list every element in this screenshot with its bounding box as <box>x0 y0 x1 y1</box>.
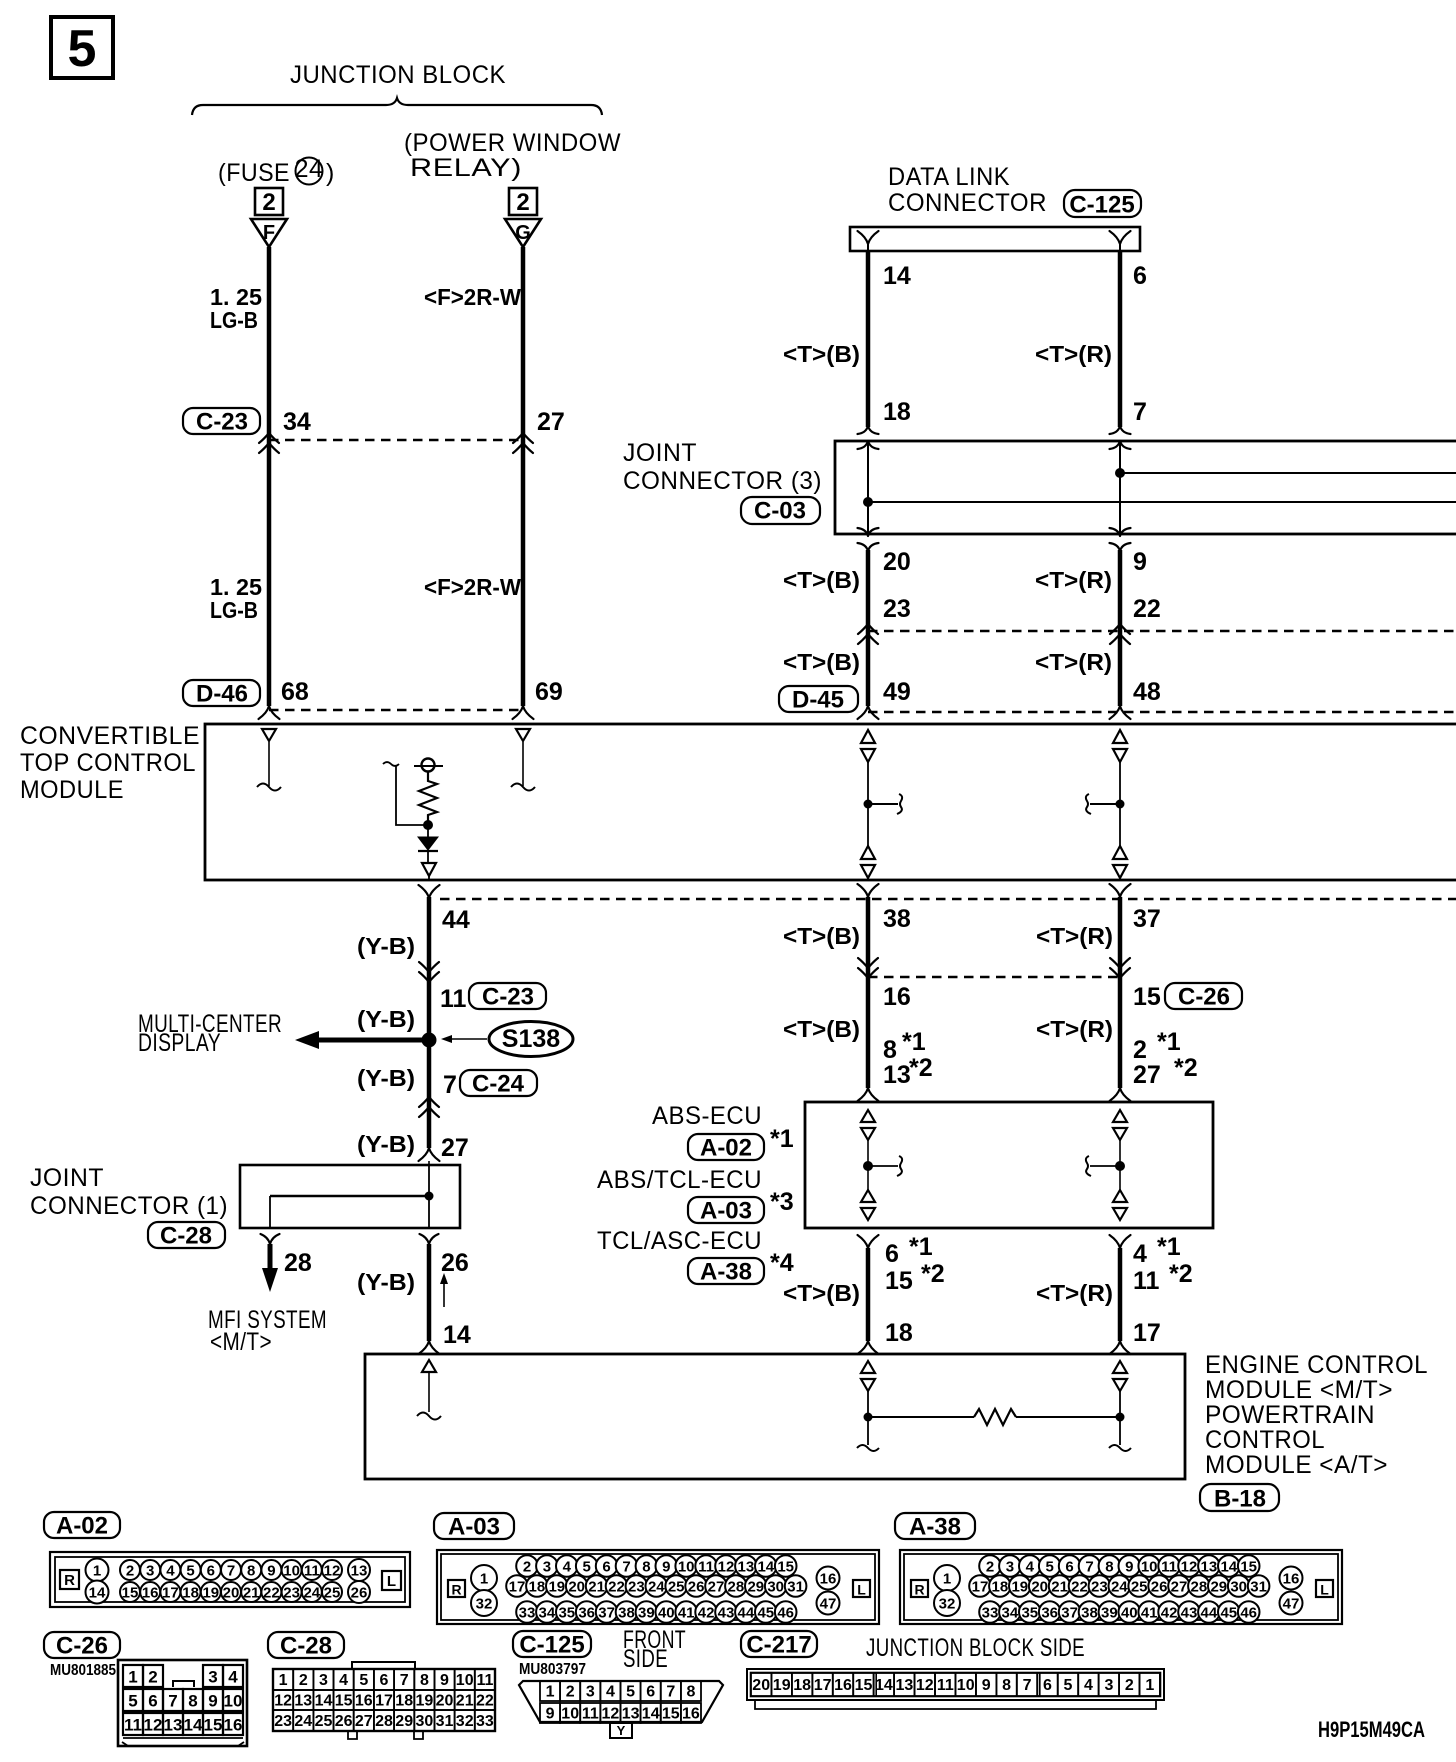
svg-text:C-26: C-26 <box>56 1633 108 1660</box>
wire B below module <box>866 897 871 1088</box>
pin 17 <box>1133 1319 1161 1347</box>
svg-text:MODULE: MODULE <box>20 776 124 804</box>
svg-text:JUNCTION BLOCK: JUNCTION BLOCK <box>290 61 506 89</box>
dashed connector line D-45 <box>868 711 1456 714</box>
svg-text:49: 49 <box>883 678 911 706</box>
pin 4 *1 (engine) <box>1133 1233 1181 1268</box>
wire G label <F>2R-W upper <box>424 284 521 310</box>
fork below module wire B <box>858 884 879 897</box>
svg-text:40: 40 <box>658 1605 675 1622</box>
svg-text:TCL/ASC-ECU: TCL/ASC-ECU <box>597 1227 762 1255</box>
module internal triangles bottom (R) <box>1113 846 1127 881</box>
connector C-125 pinout label <box>513 1631 591 1659</box>
svg-text:18: 18 <box>883 398 911 426</box>
wire label <T>(R) 2 <box>1035 649 1112 675</box>
svg-text:5: 5 <box>583 1559 591 1576</box>
label TCL/ASC-ECU <box>597 1227 762 1255</box>
svg-text:6: 6 <box>1065 1559 1073 1576</box>
svg-text:27: 27 <box>1133 1061 1161 1089</box>
svg-text:16: 16 <box>682 1706 700 1723</box>
svg-text:(Y-B): (Y-B) <box>357 1006 415 1032</box>
svg-text:26: 26 <box>1151 1579 1168 1596</box>
svg-text:11: 11 <box>440 985 467 1013</box>
svg-text:14: 14 <box>184 1716 203 1735</box>
svg-text:28: 28 <box>728 1579 745 1596</box>
pin 27 *2 <box>1133 1054 1198 1089</box>
connector C-26 part number MU801885 <box>50 1662 116 1679</box>
svg-text:S138: S138 <box>502 1025 560 1053</box>
module internal resistor <box>419 771 437 825</box>
svg-text:<T>(R): <T>(R) <box>1035 567 1112 593</box>
svg-text:7: 7 <box>168 1692 177 1711</box>
svg-text:45: 45 <box>1220 1605 1237 1622</box>
svg-text:21: 21 <box>456 1693 474 1710</box>
fork at joint connector exit R <box>1110 528 1131 551</box>
svg-text:29: 29 <box>747 1579 764 1596</box>
svg-text:41: 41 <box>1141 1605 1158 1622</box>
svg-text:7: 7 <box>227 1563 235 1580</box>
svg-text:11: 11 <box>304 1563 320 1580</box>
svg-text:15: 15 <box>204 1716 223 1735</box>
svg-text:36: 36 <box>578 1605 595 1622</box>
wire label (Y-B) 1 <box>357 933 415 959</box>
svg-text:C-24: C-24 <box>472 1071 525 1098</box>
svg-text:28: 28 <box>284 1249 312 1277</box>
svg-text:33: 33 <box>476 1713 494 1730</box>
svg-text:47: 47 <box>1283 1596 1300 1613</box>
svg-text:1: 1 <box>943 1571 951 1588</box>
svg-text:2: 2 <box>126 1563 134 1580</box>
svg-text:5: 5 <box>68 20 97 78</box>
label JOINT CONNECTOR (3) <box>623 439 822 495</box>
module internal pull-up circle <box>414 759 443 772</box>
svg-text:38: 38 <box>883 905 911 933</box>
connector C-23 label (center) <box>469 983 546 1011</box>
data link pin fork B <box>858 231 879 251</box>
svg-text:22: 22 <box>1133 595 1161 623</box>
joint connector bus line 1 <box>1115 468 1456 478</box>
svg-text:CONVERTIBLE: CONVERTIBLE <box>20 722 200 750</box>
pin 13 *2 <box>883 1054 933 1089</box>
svg-text:44: 44 <box>738 1605 755 1622</box>
connector C-28 pinout box <box>273 1662 495 1739</box>
wire F (fuse 24 to module, LG-B) <box>267 247 272 706</box>
svg-text:12: 12 <box>916 1677 934 1694</box>
connector C-125 label <box>1064 190 1141 219</box>
dashed connector line C-23 <box>269 439 523 442</box>
svg-text:12: 12 <box>602 1706 620 1723</box>
svg-text:69: 69 <box>535 678 563 706</box>
svg-text:C-125: C-125 <box>519 1632 584 1659</box>
svg-text:3: 3 <box>146 1563 154 1580</box>
pin 6 <box>1133 262 1147 290</box>
chevron inline R <box>1110 624 1130 644</box>
svg-text:(FUSE: (FUSE <box>218 159 290 187</box>
svg-text:22: 22 <box>263 1585 280 1602</box>
connector A-03 label + *3 <box>688 1188 794 1225</box>
svg-text:22: 22 <box>476 1693 494 1710</box>
svg-text:POWERTRAIN: POWERTRAIN <box>1205 1401 1375 1429</box>
module internal triangles bottom (B) <box>861 846 875 881</box>
svg-text:46: 46 <box>777 1605 794 1622</box>
module internal triangles top (B) <box>861 730 875 762</box>
svg-text:2: 2 <box>262 189 275 216</box>
svg-text:39: 39 <box>1101 1605 1118 1622</box>
wire R ABS to engine module <box>1118 1248 1123 1341</box>
data link connector box <box>850 227 1140 251</box>
connector C-24 label <box>460 1070 537 1098</box>
wire label <T>(B) 5 <box>783 1280 860 1306</box>
svg-text:5: 5 <box>1046 1559 1054 1576</box>
fork at engine module wire B <box>858 1341 879 1354</box>
svg-text:25: 25 <box>1131 1579 1148 1596</box>
wire label <T>(R) <box>1035 567 1112 593</box>
svg-text:17: 17 <box>375 1693 393 1710</box>
wire B ABS to engine module <box>866 1248 871 1341</box>
joint connector (1) box <box>240 1165 460 1228</box>
label (FUSE 24) <box>218 155 335 187</box>
svg-text:<T>(R): <T>(R) <box>1036 923 1113 949</box>
connector C-23 label (wire F) <box>183 408 260 436</box>
wire G end fork <box>513 706 534 719</box>
svg-text:8: 8 <box>883 1036 897 1064</box>
svg-text:33: 33 <box>519 1605 536 1622</box>
arrow to MFI system <box>262 1244 278 1292</box>
svg-text:23: 23 <box>274 1713 292 1730</box>
svg-text:A-03: A-03 <box>700 1198 752 1225</box>
wire B upper (diagnosis K-line) <box>866 251 871 427</box>
svg-text:10: 10 <box>1141 1559 1158 1576</box>
ABS internal branch with hook (R) <box>1086 1156 1125 1176</box>
svg-text:9: 9 <box>1125 1559 1133 1576</box>
svg-text:19: 19 <box>1011 1579 1028 1596</box>
svg-text:13: 13 <box>351 1563 368 1580</box>
pin 37 <box>1133 905 1161 933</box>
chevron inline (Y-B up) <box>419 1097 439 1117</box>
fork above joint connector (1) <box>419 1148 440 1165</box>
svg-text:17: 17 <box>509 1579 526 1596</box>
pin 6 *1 (engine) <box>885 1233 933 1268</box>
svg-text:27: 27 <box>441 1134 469 1162</box>
svg-text:1: 1 <box>93 1563 101 1580</box>
svg-text:2: 2 <box>566 1684 575 1701</box>
svg-text:8: 8 <box>420 1672 429 1689</box>
data link pin fork R <box>1110 231 1131 251</box>
svg-text:7: 7 <box>1023 1677 1032 1694</box>
svg-text:24: 24 <box>1111 1579 1128 1596</box>
svg-text:*2: *2 <box>1169 1260 1193 1288</box>
svg-text:1: 1 <box>1145 1677 1154 1694</box>
svg-text:H9P15M49CA: H9P15M49CA <box>1318 1717 1425 1742</box>
svg-text:32: 32 <box>939 1596 956 1613</box>
svg-text:15: 15 <box>335 1693 353 1710</box>
pin 14 (engine module) <box>443 1321 471 1349</box>
label MFI SYSTEM M/T <box>208 1306 327 1356</box>
terminal triangle G <box>505 219 541 247</box>
svg-text:8: 8 <box>247 1563 255 1580</box>
svg-text:<T>(B): <T>(B) <box>783 649 860 675</box>
svg-text:13: 13 <box>164 1716 183 1735</box>
svg-text:14: 14 <box>883 262 911 290</box>
convertible top control module box <box>205 724 1456 880</box>
svg-text:9: 9 <box>1133 548 1147 576</box>
svg-text:19: 19 <box>416 1693 434 1710</box>
svg-text:MODULE <A/T>: MODULE <A/T> <box>1205 1451 1388 1479</box>
svg-text:15: 15 <box>855 1677 873 1694</box>
fork below joint connector (26) <box>420 1234 439 1244</box>
svg-text:44: 44 <box>442 906 470 934</box>
svg-text:R: R <box>451 1582 461 1598</box>
svg-text:*2: *2 <box>1174 1054 1198 1082</box>
direction arrow (up) <box>440 1273 448 1307</box>
pin 7 (C-24) <box>443 1071 457 1099</box>
svg-text:L: L <box>857 1582 866 1598</box>
module internal triangles top (R) <box>1113 730 1127 762</box>
svg-text:<T>(R): <T>(R) <box>1036 1016 1113 1042</box>
svg-text:21: 21 <box>1051 1579 1068 1596</box>
svg-text:ENGINE CONTROL: ENGINE CONTROL <box>1205 1351 1428 1379</box>
svg-text:): ) <box>326 159 335 187</box>
svg-text:5: 5 <box>626 1684 635 1701</box>
pin 2 *1 <box>1133 1028 1181 1064</box>
fork above ABS box wire B <box>858 1088 879 1101</box>
svg-text:17: 17 <box>814 1677 832 1694</box>
module internal wire (R) <box>1119 762 1121 846</box>
svg-text:F: F <box>263 222 275 244</box>
svg-text:8: 8 <box>1002 1677 1011 1694</box>
pin 68 <box>281 678 309 706</box>
joint connector (3) box <box>835 441 1456 534</box>
page number 5 box <box>51 17 113 78</box>
svg-text:15: 15 <box>1240 1559 1257 1576</box>
svg-text:6: 6 <box>1133 262 1147 290</box>
svg-text:8: 8 <box>188 1692 197 1711</box>
svg-text:22: 22 <box>1071 1579 1088 1596</box>
fork below joint connector (28) <box>261 1234 280 1244</box>
svg-text:2: 2 <box>299 1672 308 1689</box>
svg-text:<F>2R-W: <F>2R-W <box>424 574 521 600</box>
svg-text:2: 2 <box>1125 1677 1134 1694</box>
svg-text:15: 15 <box>1133 983 1161 1011</box>
svg-text:*2: *2 <box>921 1260 945 1288</box>
svg-text:7: 7 <box>622 1559 630 1576</box>
pin 18 <box>885 1319 913 1347</box>
svg-text:MODULE <M/T>: MODULE <M/T> <box>1205 1376 1393 1404</box>
svg-text:6: 6 <box>646 1684 655 1701</box>
svg-text:19: 19 <box>548 1579 565 1596</box>
module internal wire G to squiggle <box>511 742 535 791</box>
module internal branch with hook (R) <box>1086 794 1125 814</box>
svg-text:<T>(B): <T>(B) <box>783 1016 860 1042</box>
pin 8 *1 <box>883 1028 926 1064</box>
label (POWER WINDOW RELAY) <box>404 129 621 182</box>
connector C-26 label (wire R) <box>1165 983 1242 1011</box>
svg-text:7: 7 <box>666 1684 675 1701</box>
wire label <T>(R) upper <box>1035 341 1112 367</box>
svg-text:<T>(B): <T>(B) <box>783 341 860 367</box>
svg-text:11: 11 <box>1161 1559 1177 1576</box>
svg-text:JUNCTION BLOCK SIDE: JUNCTION BLOCK SIDE <box>866 1634 1085 1662</box>
svg-text:*2: *2 <box>909 1054 933 1082</box>
joint connector internal wire R <box>1119 441 1121 534</box>
svg-text:31: 31 <box>787 1579 804 1596</box>
svg-text:4: 4 <box>563 1559 572 1576</box>
svg-text:4: 4 <box>228 1668 238 1687</box>
svg-text:C-125: C-125 <box>1069 192 1134 219</box>
module internal branch bracket <box>383 762 424 825</box>
svg-text:7: 7 <box>1133 398 1147 426</box>
svg-text:27: 27 <box>537 408 565 436</box>
wire F end fork <box>259 706 280 719</box>
svg-text:42: 42 <box>698 1605 715 1622</box>
svg-text:3: 3 <box>319 1672 328 1689</box>
label JUNCTION BLOCK <box>290 61 506 89</box>
junction dot S138 <box>422 1033 437 1048</box>
fork below module wire R <box>1110 884 1131 897</box>
svg-text:*1: *1 <box>909 1233 933 1261</box>
svg-text:20: 20 <box>752 1677 770 1694</box>
svg-text:6: 6 <box>207 1563 215 1580</box>
ABS internal triangles top (R) <box>1113 1110 1127 1140</box>
svg-text:46: 46 <box>1240 1605 1257 1622</box>
ABS internal triangles top (B) <box>861 1110 875 1140</box>
wire label <T>(R) 5 <box>1036 1280 1113 1306</box>
svg-text:*1: *1 <box>770 1125 794 1153</box>
svg-text:19: 19 <box>773 1677 791 1694</box>
svg-text:C-217: C-217 <box>746 1632 811 1659</box>
label ABS/TCL-ECU <box>597 1166 762 1194</box>
svg-text:1: 1 <box>279 1672 288 1689</box>
pin 15 <box>1133 983 1161 1011</box>
connector B-18 label <box>1200 1484 1279 1513</box>
svg-text:9: 9 <box>546 1706 555 1723</box>
svg-text:18: 18 <box>793 1677 811 1694</box>
joint connector internal wire B <box>867 441 869 534</box>
module internal wire (B) <box>867 762 869 846</box>
svg-text:<T>(B): <T>(B) <box>783 923 860 949</box>
joint connector bus line 2 <box>863 497 1456 507</box>
wire G (power window relay to module, 2R-W) <box>521 247 526 706</box>
svg-text:10: 10 <box>456 1672 474 1689</box>
fork at engine module wire R <box>1110 1341 1131 1354</box>
svg-text:2: 2 <box>523 1559 531 1576</box>
svg-text:28: 28 <box>1191 1579 1208 1596</box>
svg-text:14: 14 <box>642 1706 660 1723</box>
connector A-02 pinout box <box>50 1552 410 1607</box>
svg-text:*1: *1 <box>902 1028 926 1056</box>
fork above ABS box wire R <box>1110 1088 1131 1101</box>
svg-text:15: 15 <box>885 1267 913 1295</box>
svg-text:17: 17 <box>1133 1319 1161 1347</box>
svg-text:29: 29 <box>1210 1579 1227 1596</box>
svg-text:8: 8 <box>1105 1559 1113 1576</box>
svg-text:4: 4 <box>166 1563 175 1580</box>
wire Y-B main vertical <box>427 897 432 1148</box>
svg-text:32: 32 <box>476 1596 493 1613</box>
pin 48 <box>1133 678 1161 706</box>
arrow from S138 to wire <box>441 1035 487 1043</box>
connector A-38 pinout box <box>900 1550 1342 1624</box>
svg-text:5: 5 <box>1064 1677 1073 1694</box>
dashed line below module <box>440 898 1456 901</box>
svg-text:3: 3 <box>1104 1677 1113 1694</box>
splice label S138 <box>489 1022 573 1057</box>
svg-text:6: 6 <box>602 1559 610 1576</box>
connector C-26 pinout label <box>44 1632 120 1660</box>
fork wire B at module <box>858 706 879 719</box>
svg-text:MU803797: MU803797 <box>519 1661 586 1678</box>
svg-text:4: 4 <box>339 1672 348 1689</box>
svg-text:B-18: B-18 <box>1214 1486 1266 1513</box>
svg-text:35: 35 <box>558 1605 575 1622</box>
svg-text:34: 34 <box>539 1605 556 1622</box>
svg-text:14: 14 <box>89 1585 106 1602</box>
chevron into joint connector (wire B) <box>858 426 879 449</box>
fork below ABS box wire R <box>1110 1235 1131 1248</box>
label ENGINE CONTROL MODULE / POWERTRAIN CONTROL MODULE <box>1205 1351 1428 1479</box>
svg-text:JOINT: JOINT <box>623 439 697 467</box>
svg-text:2: 2 <box>1133 1036 1147 1064</box>
svg-text:27: 27 <box>1171 1579 1188 1596</box>
svg-text:1: 1 <box>480 1571 488 1588</box>
wire F label 1.25 LG-B upper <box>210 284 262 333</box>
svg-text:C-26: C-26 <box>1178 984 1230 1011</box>
wire R middle <box>1118 550 1123 706</box>
fork wire R at module <box>1110 706 1131 719</box>
connector C-03 label <box>741 497 820 525</box>
svg-text:20: 20 <box>883 548 911 576</box>
svg-text:13: 13 <box>896 1677 914 1694</box>
svg-text:31: 31 <box>436 1713 454 1730</box>
svg-text:27: 27 <box>355 1713 373 1730</box>
svg-text:11: 11 <box>698 1559 714 1576</box>
pin 7 <box>1133 398 1147 426</box>
svg-text:13: 13 <box>622 1706 640 1723</box>
svg-text:10: 10 <box>224 1692 243 1711</box>
fork below ABS box wire B <box>858 1235 879 1248</box>
svg-text:2: 2 <box>986 1559 994 1576</box>
wire R below module <box>1118 897 1123 1088</box>
svg-text:45: 45 <box>757 1605 774 1622</box>
svg-text:10: 10 <box>283 1563 300 1580</box>
svg-text:38: 38 <box>1081 1605 1098 1622</box>
svg-text:<F>2R-W: <F>2R-W <box>424 284 521 310</box>
svg-text:20: 20 <box>223 1585 240 1602</box>
module internal junction dot <box>423 820 433 837</box>
pin 69 <box>535 678 563 706</box>
svg-text:6: 6 <box>885 1240 899 1268</box>
pin 38 <box>883 905 911 933</box>
wire label (Y-B) 3 <box>357 1065 415 1091</box>
svg-text:2: 2 <box>148 1668 157 1687</box>
svg-text:*1: *1 <box>1157 1233 1181 1261</box>
svg-text:18: 18 <box>885 1319 913 1347</box>
svg-text:18: 18 <box>992 1579 1009 1596</box>
svg-text:8: 8 <box>686 1684 695 1701</box>
svg-text:26: 26 <box>351 1585 368 1602</box>
svg-text:*4: *4 <box>770 1249 794 1277</box>
svg-text:CONTROL: CONTROL <box>1205 1426 1325 1454</box>
svg-text:C-28: C-28 <box>160 1223 212 1250</box>
svg-text:3: 3 <box>1006 1559 1014 1576</box>
chevron inline (Y-B down) <box>419 962 439 982</box>
svg-text:23: 23 <box>628 1579 645 1596</box>
inline connector chevron wire G <box>513 433 533 453</box>
svg-text:DATA LINK: DATA LINK <box>888 163 1010 191</box>
label CONVERTIBLE TOP CONTROL MODULE <box>20 722 200 804</box>
svg-text:23: 23 <box>283 1585 300 1602</box>
connector D-46 label <box>183 680 260 708</box>
